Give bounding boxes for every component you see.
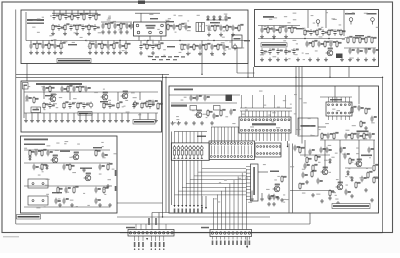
annotation text — [316, 194, 320, 195]
wire — [301, 86, 303, 144]
capacitor C38 — [317, 41, 323, 47]
wire — [121, 113, 123, 119]
relay/connector K1 — [28, 179, 48, 188]
wire — [205, 196, 207, 207]
annotation text — [66, 90, 70, 91]
J2 pin stroke — [247, 146, 249, 155]
U3 pin lead — [336, 116, 338, 120]
resistor R17 — [48, 42, 53, 49]
annotation text — [157, 29, 159, 30]
ground — [146, 119, 150, 123]
ground — [87, 32, 91, 36]
U7 pin circle — [284, 119, 286, 121]
U3 pin lead — [328, 97, 330, 102]
ground — [250, 197, 254, 201]
P2 pin lead — [244, 237, 246, 240]
annotation text — [221, 42, 225, 43]
annotation text — [148, 56, 151, 57]
capacitor C57 — [68, 102, 74, 108]
wire — [30, 41, 32, 44]
junction — [162, 216, 163, 217]
wire — [329, 67, 331, 78]
annotation text — [295, 54, 298, 55]
capacitor C60 — [132, 102, 138, 108]
annotation text — [293, 40, 297, 41]
P1 signal label — [155, 218, 157, 225]
pin — [42, 200, 44, 202]
J2 pin stroke — [227, 146, 229, 155]
annotation text — [319, 129, 321, 130]
wire — [24, 112, 158, 114]
resistor R20 — [101, 42, 106, 49]
wire — [31, 113, 33, 119]
ground — [98, 203, 102, 207]
P2 pin lead — [224, 237, 226, 240]
capacitor C71 — [54, 198, 60, 204]
ground — [280, 198, 284, 202]
pin label — [182, 209, 184, 214]
wire — [89, 41, 91, 44]
annotation text — [58, 198, 61, 199]
annotation text — [72, 172, 76, 173]
ground — [30, 119, 34, 123]
section subtitle — [27, 23, 44, 24]
resistor R50 — [43, 102, 48, 109]
ground — [296, 58, 300, 62]
capacitor C17 — [231, 25, 237, 31]
ground — [113, 30, 117, 34]
annotation text — [208, 30, 212, 31]
capacitor C56 — [48, 102, 54, 108]
wire — [253, 67, 255, 77]
annotation text — [290, 166, 294, 167]
U5 pin stub — [246, 166, 251, 168]
wire — [24, 206, 110, 208]
IC U2 (small module) — [31, 107, 41, 113]
annotation text — [80, 37, 83, 38]
wire — [252, 232, 383, 234]
resistor R10 — [120, 22, 125, 29]
U3 pin lead — [344, 97, 346, 102]
capacitor C24 — [139, 43, 145, 49]
label U4 part number — [301, 125, 316, 127]
ground — [340, 58, 344, 62]
annotation text — [93, 29, 95, 30]
ground — [324, 58, 328, 62]
filter FL1 — [190, 106, 197, 111]
U7 pin circle — [259, 119, 261, 121]
P1 stub wire — [145, 224, 147, 230]
annotation text — [91, 41, 95, 42]
tick mark — [181, 158, 183, 159]
section title — [24, 139, 48, 141]
J2 pin circle — [251, 143, 253, 145]
wire — [261, 26, 263, 28]
crystal X1 — [226, 95, 233, 102]
annotation text — [38, 175, 41, 176]
annotation text — [61, 28, 65, 29]
P2 pin lead — [212, 237, 214, 240]
annotation text — [163, 49, 166, 50]
wire — [288, 144, 290, 213]
annotation text — [86, 102, 90, 103]
P2 pin lead — [216, 237, 218, 240]
capacitor C49 — [42, 86, 48, 92]
ground — [51, 32, 55, 36]
resistor R68 — [360, 120, 365, 127]
annotation text — [133, 97, 137, 98]
capacitor C95 — [316, 178, 322, 184]
annotation text — [68, 88, 70, 89]
wire — [291, 26, 293, 28]
pin label — [193, 209, 195, 214]
annotation text — [207, 40, 209, 41]
U3 pin circle — [328, 104, 330, 106]
resistor R55 — [141, 102, 146, 109]
wire — [251, 95, 253, 108]
resistor R24 — [158, 43, 163, 50]
ground — [198, 52, 202, 56]
wire to connector P2 — [225, 187, 227, 229]
annotation text — [272, 112, 275, 113]
U5 pin stub — [246, 199, 251, 201]
annotation text — [286, 108, 290, 109]
annotation text — [102, 146, 104, 147]
capacitor C22 — [106, 43, 112, 49]
annotation text — [203, 114, 207, 115]
U1 part number line 2 — [147, 27, 155, 28]
annotation text — [260, 54, 264, 55]
U3 pin circle — [349, 104, 351, 106]
P2 pin circle — [236, 232, 238, 234]
P1 pin circle — [150, 232, 152, 234]
resistor R86 — [329, 189, 334, 196]
ground — [328, 196, 332, 200]
U3 pin circle — [328, 112, 330, 114]
capacitor C41 — [356, 48, 362, 54]
resistor R30 — [279, 26, 284, 33]
arrowhead — [146, 238, 148, 240]
U7 pin circle — [252, 119, 254, 121]
annotation text — [253, 119, 257, 120]
P1 label mark — [159, 249, 160, 250]
resistor R13 — [214, 24, 219, 31]
wire — [197, 132, 199, 143]
wire — [71, 10, 73, 13]
J2 pin circle — [234, 143, 236, 145]
annotation text — [181, 100, 184, 101]
J2 pin circle — [247, 156, 249, 158]
wire — [181, 132, 183, 143]
label text — [80, 168, 92, 169]
J2 pin circle — [224, 143, 226, 145]
annotation text — [369, 157, 371, 158]
block outline: main control board — [169, 86, 379, 213]
label text — [60, 151, 70, 152]
test point TP3 — [316, 20, 320, 27]
connector J3 — [255, 143, 281, 157]
annotation text — [303, 102, 306, 103]
ground — [364, 126, 368, 130]
J2 pin circle — [224, 156, 226, 158]
U1 pin circle — [160, 31, 163, 34]
J2 pin circle — [220, 156, 222, 158]
annotation text — [346, 13, 348, 14]
annotation text — [364, 48, 367, 49]
U7 pin circle — [270, 129, 272, 131]
U3 pin circle — [332, 104, 334, 106]
resistor R63 — [73, 186, 78, 193]
U7 pin lead — [262, 133, 264, 141]
ground — [207, 33, 211, 37]
wire — [292, 144, 294, 213]
P1 signal label — [148, 218, 150, 225]
ground — [364, 188, 368, 192]
capacitor C64 — [46, 150, 52, 156]
P2 pin label — [245, 241, 247, 246]
junction — [179, 40, 180, 41]
wire rung 5 — [190, 179, 246, 181]
annotation text — [329, 44, 332, 45]
capacitor C90 — [224, 15, 230, 21]
wire — [117, 202, 163, 204]
wire — [201, 196, 203, 207]
wire to connector P2 — [217, 194, 219, 229]
J2 pin circle — [227, 143, 229, 145]
annotation text — [376, 27, 379, 28]
wire — [127, 113, 129, 119]
ground — [107, 30, 111, 34]
wire — [201, 132, 203, 143]
tick mark — [201, 158, 203, 159]
J3 pin circle — [279, 153, 281, 155]
U7 pin lead — [288, 133, 290, 141]
label U5 rotated text — [253, 167, 255, 195]
wire — [115, 113, 117, 119]
wire: horizontal bus — [16, 76, 383, 78]
U7 pin lead — [259, 133, 261, 141]
capacitor C8 — [93, 24, 99, 30]
J2 pin stroke — [214, 146, 216, 155]
annotation text — [118, 29, 122, 30]
wire — [152, 212, 169, 214]
annotation text — [283, 194, 285, 195]
diode D5 — [329, 158, 332, 164]
P1 stub wire — [165, 224, 167, 230]
annotation text — [225, 116, 228, 117]
wire — [284, 95, 286, 108]
edge signal label — [115, 186, 117, 191]
transistor Q2 — [49, 94, 56, 102]
annotation text — [352, 12, 355, 13]
wire — [273, 95, 275, 108]
wire — [95, 41, 97, 44]
capacitor C23 — [118, 43, 124, 49]
wire — [101, 41, 103, 44]
annotation text — [335, 195, 337, 196]
resistor R39 — [347, 36, 352, 43]
arrowhead — [201, 207, 203, 209]
label text — [100, 101, 108, 102]
capacitor C7 — [81, 24, 87, 30]
P1 pin circle — [134, 232, 136, 234]
ground — [356, 58, 360, 62]
capacitor C92 — [301, 172, 307, 178]
annotation text — [371, 119, 373, 120]
P1 label mark — [138, 249, 139, 250]
wire — [24, 91, 158, 93]
IC U1 (IF demodulator) — [134, 22, 167, 36]
P1 pin lead — [159, 236, 161, 241]
J3 pin circle — [273, 153, 275, 155]
P1 pin circle — [167, 232, 169, 234]
U5 pin stub — [246, 179, 251, 181]
transistor Q6 — [72, 152, 79, 160]
label text — [93, 147, 102, 148]
J3 pin circle — [260, 146, 262, 148]
J2 pin circle — [234, 156, 236, 158]
IC U7 (signal processor) — [239, 117, 291, 133]
capacitor C72 — [62, 198, 68, 204]
ground — [108, 119, 112, 123]
annotation text — [331, 18, 335, 19]
resistor R80 — [315, 154, 320, 161]
wire to connector P2 — [229, 184, 231, 230]
resistor R60 — [107, 163, 112, 170]
wire — [171, 132, 173, 206]
U7 pin lead — [248, 133, 250, 141]
wire: right vertical bus — [382, 77, 384, 233]
section title — [263, 16, 274, 18]
J2 pin circle — [217, 143, 219, 145]
diode D2 — [213, 15, 216, 21]
annotation text — [182, 26, 186, 27]
wire — [295, 86, 297, 135]
P2 pin lead — [232, 237, 234, 240]
annotation text — [228, 48, 231, 49]
P2 pin label — [236, 241, 238, 246]
U7 pin lead — [266, 111, 268, 117]
annotation text — [332, 109, 335, 110]
arrowhead — [197, 205, 199, 207]
junction — [328, 38, 329, 39]
wire — [61, 113, 63, 119]
resistor R66 — [220, 109, 225, 116]
J2 pin stroke — [210, 146, 212, 155]
capacitor C53 — [25, 95, 31, 101]
capacitor C5 — [57, 24, 63, 30]
P2 pin circle — [220, 232, 222, 234]
U7 pin circle — [241, 129, 243, 131]
annotation text — [283, 100, 286, 101]
annotation text — [348, 168, 350, 169]
label strip: deflection ref — [133, 120, 155, 125]
capacitor C75 — [195, 95, 201, 101]
J2 pin lead wire — [217, 127, 219, 143]
ground — [364, 58, 368, 62]
wire — [26, 64, 28, 82]
annotation text — [342, 154, 345, 155]
component value text — [152, 59, 156, 60]
component value text — [181, 56, 185, 57]
annotation text — [374, 176, 378, 177]
ground — [272, 202, 276, 206]
U5 pin stub — [246, 175, 251, 177]
J2 pin stroke — [234, 146, 236, 155]
annotation text — [242, 114, 246, 115]
ground — [177, 121, 181, 125]
annotation text — [184, 97, 187, 98]
annotation text — [259, 91, 263, 92]
diode D2 — [29, 155, 32, 161]
capacitor C70 — [94, 187, 100, 193]
U7 pin lead — [255, 111, 257, 117]
annotation text — [302, 53, 304, 54]
ground — [94, 51, 98, 55]
wire — [77, 10, 79, 13]
U7 pin lead — [270, 133, 272, 141]
annotation text — [83, 193, 85, 194]
annotation text — [46, 179, 50, 180]
wire to connector P2 — [237, 176, 239, 229]
resistor R16 — [36, 42, 41, 49]
annotation text — [125, 93, 128, 94]
wire column — [177, 160, 179, 205]
annotation text — [364, 13, 368, 14]
wire — [155, 113, 157, 119]
ground — [219, 33, 223, 37]
capacitor C51 — [72, 86, 78, 92]
capacitor C54 — [151, 100, 157, 106]
J3 pin circle — [263, 146, 265, 148]
annotation text — [218, 201, 221, 202]
label text — [167, 46, 175, 47]
wire — [103, 113, 105, 119]
annotation text — [329, 134, 332, 135]
annotation text — [365, 138, 367, 139]
annotation text — [103, 89, 105, 90]
U7 pin lead — [284, 133, 286, 141]
label text — [210, 22, 220, 23]
U7 pin circle — [262, 129, 264, 131]
J2 pin stroke — [220, 146, 222, 155]
U7 pin circle — [248, 129, 250, 131]
junction — [201, 74, 202, 75]
wire — [174, 132, 176, 143]
ground — [59, 51, 63, 55]
wire rung 1 — [175, 194, 247, 196]
J3 pin circle — [266, 153, 268, 155]
annotation text — [290, 104, 292, 105]
resistor R72 — [333, 132, 338, 139]
wire — [139, 113, 141, 119]
annotation text — [200, 26, 202, 27]
annotation text — [287, 22, 290, 23]
capacitor C4 — [88, 13, 94, 19]
ground — [41, 51, 45, 55]
annotation text — [283, 202, 285, 203]
annotation text — [201, 24, 203, 25]
capacitor C59 — [108, 102, 114, 108]
annotation text — [53, 39, 56, 40]
capacitor C42 — [364, 48, 370, 54]
ground — [48, 119, 52, 123]
ground — [260, 58, 264, 62]
annotation text — [250, 126, 254, 127]
resistor R71 — [321, 132, 326, 139]
wire — [36, 41, 38, 44]
ground — [42, 119, 46, 123]
